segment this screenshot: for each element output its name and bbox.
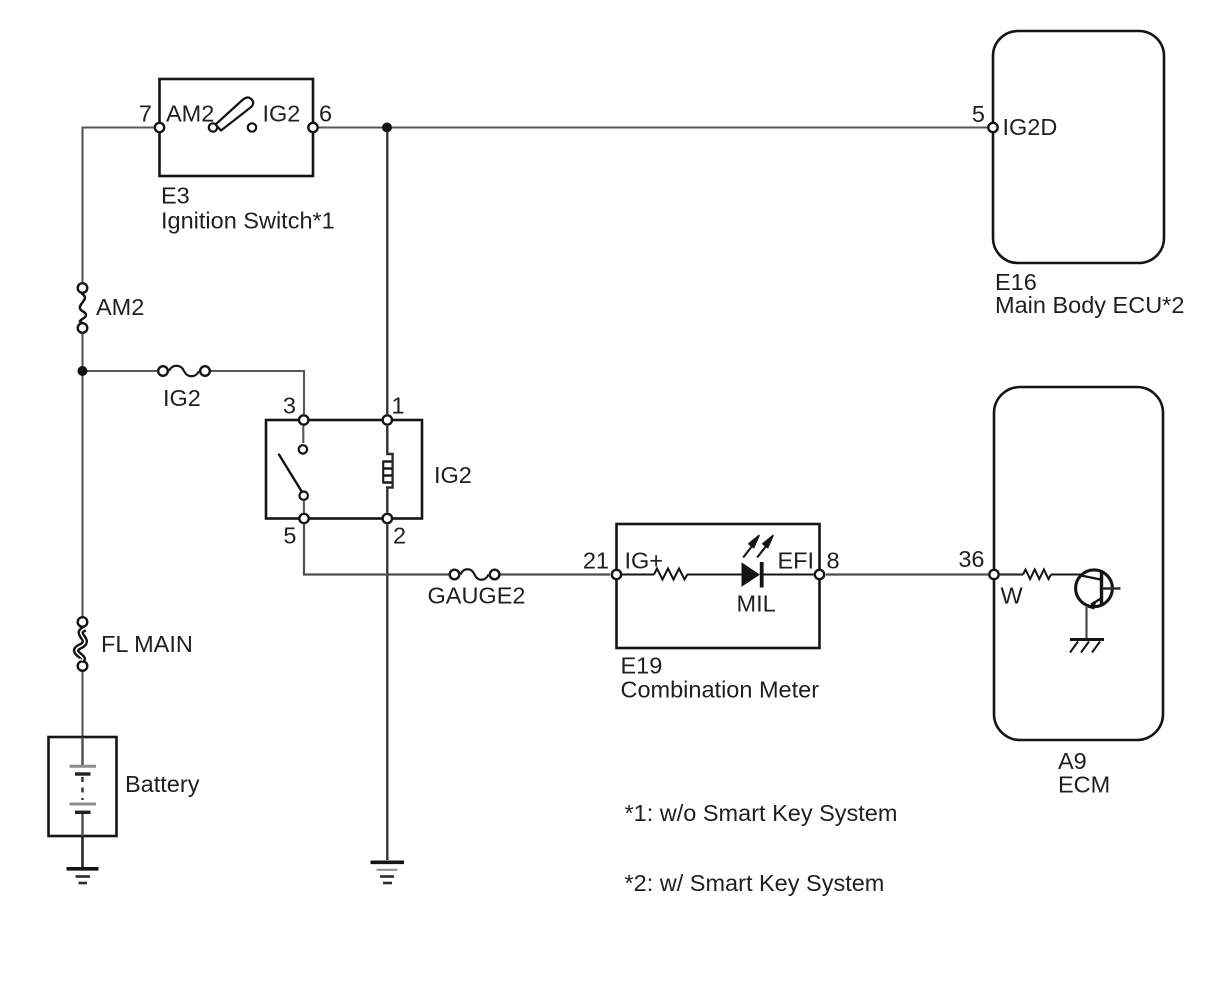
svg-text:ECM: ECM (1058, 772, 1110, 798)
svg-text:Battery: Battery (125, 771, 200, 797)
label Main Body ECU*2 (995, 292, 1184, 318)
wire label W (1001, 583, 1024, 609)
svg-text:Ignition Switch*1: Ignition Switch*1 (161, 208, 335, 234)
svg-text:AM2: AM2 (166, 101, 214, 127)
relay switch contact upper (299, 426, 307, 454)
E16 pin number 5 (972, 101, 985, 127)
transistor (ECM output) (1076, 570, 1121, 610)
wire ECM internal to resistor (1000, 573, 1023, 575)
svg-text:IG2: IG2 (163, 385, 201, 411)
label FL MAIN (101, 631, 193, 657)
node junction of AM2 wire and IG2 branch (78, 366, 88, 376)
svg-text:7: 7 (139, 101, 152, 127)
meter pin number 21 (583, 548, 609, 574)
label GAUGE2 (428, 583, 526, 609)
svg-text:5: 5 (283, 523, 296, 549)
label E3 (161, 183, 190, 209)
switch contact IG2 (E3) (248, 123, 256, 131)
label Ignition Switch*1 (161, 208, 335, 234)
meter pin number 8 (827, 548, 840, 574)
pin 7 of E3 (155, 123, 164, 132)
meter pin 8 (815, 570, 824, 579)
relay switch blade (279, 454, 303, 492)
wire resistor to LED (687, 574, 742, 576)
label AM2 (fuse) (96, 294, 144, 320)
svg-text:IG2: IG2 (263, 101, 301, 127)
wire meter internal left (623, 574, 655, 576)
ECM pin number 36 (958, 546, 984, 572)
wire GAUGE2 fuse to meter pin 21 (501, 573, 611, 575)
relay switch contact lower (300, 492, 308, 513)
label E19 (621, 653, 663, 679)
wire from ignition switch pin 7 left and down to AM2 fuse (83, 128, 154, 283)
svg-text:AM2: AM2 (96, 294, 144, 320)
label A9 (1058, 748, 1087, 774)
label E16 (995, 269, 1037, 295)
terminal label IG+ (625, 548, 664, 574)
resistor (meter) (654, 569, 687, 580)
battery box (49, 737, 117, 836)
fusible link FL MAIN (76, 617, 87, 671)
svg-text:E3: E3 (161, 183, 190, 209)
combination meter E19 box (617, 524, 820, 648)
wire relay pin 2 down to ground (386, 525, 388, 861)
ground (center, relay coil) (371, 862, 405, 883)
meter pin 21 (612, 570, 621, 579)
wire ignition switch internal IG2 segment (258, 126, 308, 128)
label ECM (1058, 772, 1110, 798)
wire meter pin 8 to ECM pin 36 (826, 573, 988, 575)
relay pin number 3 (283, 393, 296, 419)
label Battery (125, 771, 200, 797)
E16 pin 5 (988, 123, 997, 132)
wire ignition switch pin 6 to E16 pin 5 (319, 126, 988, 128)
svg-text:36: 36 (958, 546, 984, 572)
wire relay pin 5 to GAUGE2 fuse (304, 525, 449, 575)
svg-text:Combination Meter: Combination Meter (621, 677, 820, 703)
svg-text:EFI: EFI (778, 548, 815, 574)
wire AM2 fuse to IG2 junction and down to FL MAIN (81, 334, 83, 616)
battery cell symbol (70, 737, 97, 836)
fuse GAUGE2 (450, 569, 500, 580)
svg-text:E19: E19 (621, 653, 663, 679)
relay coil (383, 426, 393, 513)
wire junction down to relay pin 1 (386, 132, 388, 414)
pin number 6 label (319, 101, 332, 127)
ECM A9 box (994, 387, 1163, 740)
relay pin 1 (383, 415, 392, 424)
relay pin number 1 (392, 393, 405, 419)
svg-text:1: 1 (392, 393, 405, 419)
svg-text:5: 5 (972, 101, 985, 127)
resistor (ECM) (1023, 570, 1051, 580)
switch contact AM2 (E3) (209, 123, 217, 131)
fuse AM2 (78, 283, 88, 333)
svg-text:IG+: IG+ (625, 548, 664, 574)
ECM pin 36 (989, 570, 998, 579)
svg-text:6: 6 (319, 101, 332, 127)
svg-text:IG2: IG2 (434, 462, 472, 488)
wire LED to pin 8 (764, 574, 814, 576)
ground (battery) (67, 869, 99, 883)
ignition switch E3 box (160, 79, 314, 176)
svg-text:GAUGE2: GAUGE2 (428, 583, 526, 609)
svg-text:2: 2 (393, 523, 406, 549)
svg-text:W: W (1001, 583, 1024, 609)
relay IG2 box (266, 420, 422, 519)
terminal label IG2D (1003, 114, 1058, 140)
terminal label AM2 (166, 101, 214, 127)
node junction on IG2D wire (382, 123, 392, 133)
main body ECU E16 box (993, 31, 1164, 263)
wire transistor emitter to ground (1085, 606, 1087, 638)
svg-text:IG2D: IG2D (1003, 114, 1058, 140)
LED MIL diode (742, 562, 762, 588)
label IG2 (fuse) (163, 385, 201, 411)
wire IG2 branch horizontal to relay pin 3 (83, 371, 305, 414)
svg-text:*1: w/o Smart Key System: *1: w/o Smart Key System (625, 800, 898, 826)
wire ignition switch internal AM2 segment (165, 126, 208, 128)
relay pin 2 (383, 514, 392, 523)
wire battery to ground (81, 836, 84, 867)
label IG2 (relay) (434, 462, 472, 488)
svg-text:FL MAIN: FL MAIN (101, 631, 193, 657)
wire resistor to transistor base (1051, 574, 1084, 576)
note *1 w/o Smart Key System (625, 800, 898, 826)
svg-text:21: 21 (583, 548, 609, 574)
wire FL MAIN to battery (81, 672, 83, 764)
terminal label IG2 (263, 101, 301, 127)
relay pin 3 (299, 415, 308, 424)
svg-text:MIL: MIL (737, 591, 776, 617)
relay pin number 5 (283, 523, 296, 549)
svg-text:A9: A9 (1058, 748, 1087, 774)
relay pin number 2 (393, 523, 406, 549)
pin number 7 label (139, 101, 152, 127)
terminal label EFI (778, 548, 815, 574)
svg-text:3: 3 (283, 393, 296, 419)
pin 6 of E3 (308, 123, 317, 132)
switch lever blade of E3 (216, 98, 254, 131)
svg-text:8: 8 (827, 548, 840, 574)
svg-text:Main Body ECU*2: Main Body ECU*2 (995, 292, 1184, 318)
label MIL (737, 591, 776, 617)
fuse IG2 (158, 366, 210, 377)
relay pin 5 (299, 514, 308, 523)
LED emission arrows (743, 536, 773, 558)
svg-text:*2: w/ Smart Key System: *2: w/ Smart Key System (625, 870, 885, 896)
note *2 w/ Smart Key System (625, 870, 885, 896)
ground (ECM internal, chassis) (1070, 640, 1104, 653)
label Combination Meter (621, 677, 820, 703)
